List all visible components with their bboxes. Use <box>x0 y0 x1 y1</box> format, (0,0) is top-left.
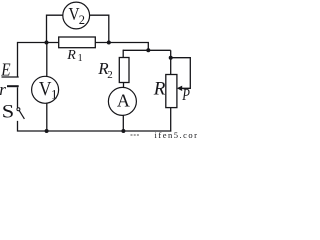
node junction V1-bottom <box>45 129 49 133</box>
svg-text:1: 1 <box>78 53 83 64</box>
wire R branch top <box>170 50 172 74</box>
wire top-left stub to V2 <box>47 15 63 42</box>
svg-text:V: V <box>39 78 52 100</box>
wire second row <box>123 49 171 51</box>
battery E r <box>0 59 19 99</box>
resistor R1 <box>59 37 96 64</box>
wire battery to switch <box>17 87 19 107</box>
voltmeter V2 <box>63 2 90 29</box>
svg-text:S: S <box>2 101 14 122</box>
node junction second row <box>146 48 150 52</box>
wire main top row <box>18 43 149 51</box>
wire left branch upper <box>17 42 19 77</box>
svg-text:ifen5.com: ifen5.com <box>155 130 198 139</box>
svg-text:r: r <box>0 80 6 99</box>
svg-text:2: 2 <box>107 69 113 81</box>
svg-text:1: 1 <box>51 86 58 101</box>
node junction wiper tie <box>169 56 173 60</box>
rheostat R <box>153 75 177 108</box>
node junction V2-right on top row <box>107 41 111 45</box>
svg-text:R: R <box>66 48 76 63</box>
resistor R2 <box>97 58 129 83</box>
svg-text:E: E <box>0 59 10 79</box>
svg-text:A: A <box>117 91 130 111</box>
node junction V2-left on top row <box>45 41 49 45</box>
wire R2 to ammeter <box>123 83 125 88</box>
wire R2 top stub <box>122 50 124 58</box>
wiper arm wire of rheostat <box>171 58 191 89</box>
wire ammeter to bottom <box>122 115 124 131</box>
wire V2 right stub <box>90 15 109 42</box>
wire switch to bottom row and bottom wire <box>18 121 172 131</box>
wiper arrowhead <box>177 86 182 91</box>
wire V1 branch lower <box>46 103 48 131</box>
wire R bottom to bottom row <box>170 108 172 132</box>
node junction A-bottom <box>121 129 125 133</box>
voltmeter V1 <box>32 76 59 103</box>
watermark dashes <box>131 134 141 136</box>
switch S <box>2 101 25 122</box>
svg-text:2: 2 <box>79 13 85 27</box>
ammeter A <box>108 87 136 115</box>
svg-text:P: P <box>181 86 190 104</box>
wire V1 branch upper <box>46 43 48 77</box>
svg-text:R: R <box>153 79 166 100</box>
